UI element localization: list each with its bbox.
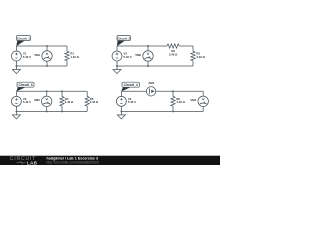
wire V3 bottom stub — [15, 106, 17, 111]
wire VM1 top stub — [46, 46, 48, 51]
svg-text:http://circuitlab.com/c/8aa58a: http://circuitlab.com/c/8aa58af3526 — [47, 160, 99, 164]
wire R1 top stub — [66, 46, 68, 51]
value label V1 — [23, 52, 31, 59]
value label R6 — [176, 97, 185, 104]
node ground C2 — [116, 65, 118, 67]
value label R1 — [70, 52, 79, 59]
wire bottom C2 — [117, 65, 193, 67]
svg-text:Circuit_3: Circuit_3 — [18, 83, 32, 87]
node R4 top — [61, 90, 63, 92]
resistor R4 — [60, 97, 64, 107]
wire top C2 right — [179, 45, 193, 47]
wire VM4 bottom stub — [202, 107, 204, 112]
label Circuit_1 — [16, 36, 30, 47]
node ground C1 — [15, 65, 17, 67]
value label R3 — [196, 52, 205, 59]
svg-text:2.42 Ω: 2.42 Ω — [169, 53, 178, 57]
resistor R2 — [167, 44, 179, 48]
label Circuit_4 — [121, 82, 139, 91]
svg-text:Circuit_2: Circuit_2 — [117, 36, 130, 40]
label Circuit_2 — [117, 36, 131, 47]
svg-text:AM1: AM1 — [148, 81, 154, 85]
label Circuit_3 — [16, 82, 34, 91]
wire R3 top stub — [192, 46, 194, 51]
svg-text:Circuit_4: Circuit_4 — [124, 83, 138, 87]
ground C4 — [117, 111, 125, 119]
svg-text:4.42 Ω: 4.42 Ω — [176, 100, 185, 104]
svg-text:3.42 Ω: 3.42 Ω — [90, 100, 99, 104]
svg-text:VM2: VM2 — [135, 53, 141, 57]
wire R3 bottom stub — [192, 61, 194, 66]
wire R5 top stub — [86, 91, 88, 96]
wire bottom C1 — [16, 65, 67, 67]
node VM3 bottom — [46, 110, 48, 112]
svg-text:VM3: VM3 — [34, 98, 40, 102]
voltmeter VM1 — [42, 51, 52, 61]
wire VM3 bottom stub — [46, 107, 48, 112]
wire VM2 top stub — [147, 46, 149, 51]
node VM3 top — [46, 90, 48, 92]
resistor R5 — [85, 97, 89, 107]
node ground C4 — [120, 110, 122, 112]
wire V2 top stub — [116, 46, 118, 51]
svg-text:5.42 V: 5.42 V — [23, 55, 31, 59]
ground C1 — [12, 66, 20, 74]
voltmeter VM2 — [143, 51, 153, 61]
resistor R1 — [65, 51, 69, 61]
wire R4 bottom stub — [61, 106, 63, 111]
wire R6 top stub — [172, 91, 174, 96]
voltage source V1 — [11, 51, 21, 61]
wire R5 bottom stub — [86, 106, 88, 111]
wire top C4 right — [156, 90, 203, 92]
value label V4 — [128, 97, 136, 104]
svg-text:Circuit_1: Circuit_1 — [17, 36, 30, 40]
voltage source V4 — [116, 96, 126, 106]
node R6 bottom — [172, 110, 174, 112]
resistor R6 — [171, 97, 175, 107]
node ground C3 — [15, 110, 17, 112]
node VM2 top — [147, 45, 149, 47]
wire top C3 — [16, 90, 87, 92]
wire V2 bottom stub — [116, 61, 118, 66]
ammeter AM1 — [146, 87, 155, 96]
value label R4 — [65, 97, 74, 104]
wire bottom C4 — [121, 110, 203, 112]
wire top C1 — [16, 45, 67, 47]
wire R1 bottom stub — [66, 61, 68, 66]
voltage source V2 — [112, 51, 122, 61]
svg-text:2.42 Ω: 2.42 Ω — [65, 100, 74, 104]
svg-text:5.42 V: 5.42 V — [23, 100, 31, 104]
svg-text:LAB: LAB — [27, 160, 38, 165]
wire V1 bottom stub — [15, 61, 17, 66]
wire R4 top stub — [61, 91, 63, 96]
value label R5 — [90, 97, 99, 104]
wire V3 top stub — [15, 91, 17, 96]
svg-text:3.42 Ω: 3.42 Ω — [196, 55, 205, 59]
svg-text:VM1: VM1 — [34, 53, 40, 57]
wire top C2 left — [117, 45, 167, 47]
wire V4 top stub — [120, 91, 122, 96]
svg-text:1.42 Ω: 1.42 Ω — [70, 55, 79, 59]
wire top C4 left — [121, 90, 146, 92]
value label R2 — [169, 49, 178, 57]
wire R6 bottom stub — [172, 106, 174, 111]
ground C2 — [113, 66, 121, 74]
voltmeter VM3 — [42, 96, 52, 106]
value label V2 — [124, 52, 132, 59]
wire V4 bottom stub — [120, 106, 122, 111]
wire VM3 top stub — [46, 91, 48, 96]
ground C3 — [12, 111, 20, 119]
node R6 top — [172, 90, 174, 92]
node R4 bottom — [61, 110, 63, 112]
svg-text:5.42 V: 5.42 V — [124, 55, 132, 59]
svg-text:5.42 V: 5.42 V — [128, 100, 136, 104]
wire VM1 bottom stub — [46, 61, 48, 66]
CircuitLab logo — [10, 156, 38, 165]
svg-text:VM4: VM4 — [190, 98, 196, 102]
voltage source V3 — [11, 96, 21, 106]
wire bottom C3 — [16, 110, 87, 112]
wire VM4 top stub — [202, 91, 204, 96]
resistor R3 — [191, 51, 195, 61]
voltmeter VM4 — [198, 96, 208, 106]
node VM1 top — [46, 45, 48, 47]
node VM1 bottom — [46, 65, 48, 67]
node VM2 bottom — [147, 65, 149, 67]
wire V1 top stub — [15, 46, 17, 51]
wire VM2 bottom stub — [147, 61, 149, 66]
value label V3 — [23, 97, 31, 104]
